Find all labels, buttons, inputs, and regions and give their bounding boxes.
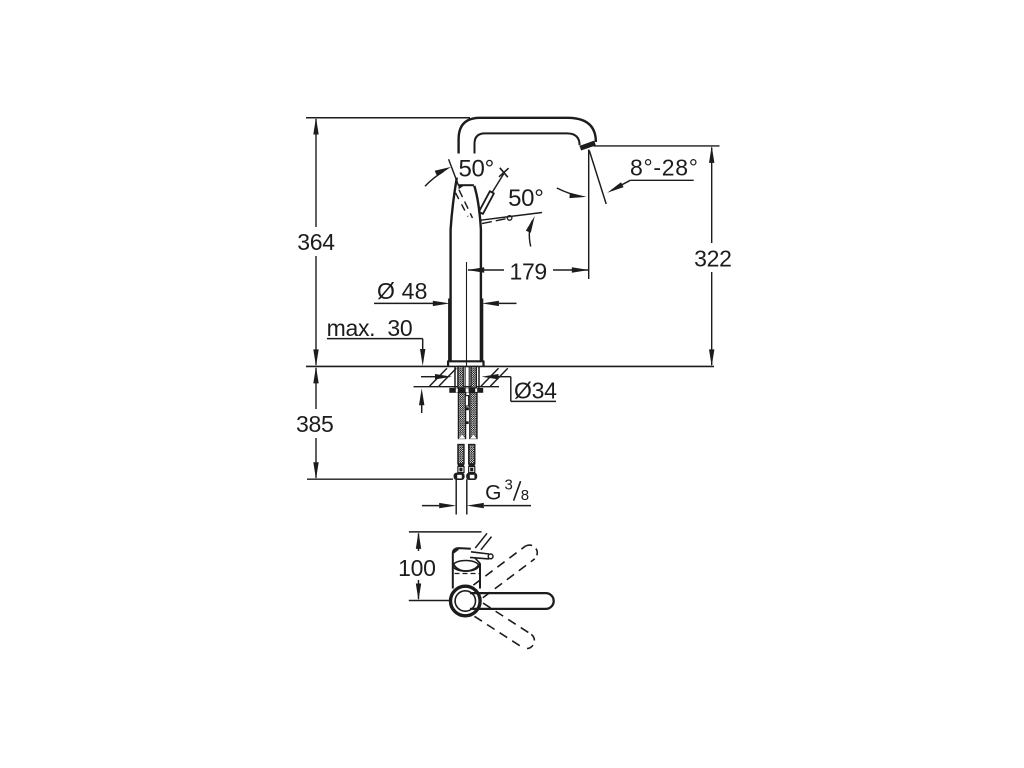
label G 3/8	[485, 477, 529, 505]
vertical line from spout outlet	[588, 150, 590, 280]
threaded stud right lower	[470, 393, 477, 439]
flexible hose left	[458, 445, 464, 465]
svg-text:322: 322	[694, 245, 731, 271]
handle collar line	[458, 184, 474, 186]
extension line top of faucet (364 upper bound)	[306, 117, 470, 119]
svg-text:364: 364	[297, 229, 335, 255]
hose end nut right	[466, 473, 477, 480]
spout outlet face (aerator)	[580, 143, 595, 148]
svg-text:Ø34: Ø34	[514, 377, 557, 403]
flexible hose right	[469, 445, 475, 465]
top-view lever raised diagonals	[475, 533, 491, 550]
label 385	[296, 411, 333, 437]
8-28 degree leader	[607, 180, 693, 192]
svg-text:385: 385	[296, 411, 333, 437]
threaded stud left lower	[458, 393, 465, 439]
handle collar black wedge	[459, 185, 466, 190]
label 50 deg lower	[508, 185, 543, 212]
label max 30	[327, 315, 413, 341]
dimension 179 line with arrows	[467, 267, 589, 272]
handle lever raised	[479, 174, 504, 214]
base sleeve right edge	[481, 299, 484, 362]
label 179	[509, 258, 546, 284]
lowered lever dashed outline	[482, 216, 512, 224]
threaded stud right upper	[471, 366, 477, 388]
label 100	[398, 555, 435, 581]
upper 50-degree arc arrow	[425, 167, 451, 186]
extension line hose end (385 lower bound)	[307, 478, 453, 480]
top-view cartridge outline	[453, 548, 480, 563]
countertop deck line	[306, 365, 714, 367]
label 364	[297, 229, 335, 255]
svg-text:100: 100	[398, 555, 435, 581]
top-view extension line upper (100)	[409, 531, 482, 533]
label 8-28 deg	[630, 155, 699, 181]
label 322	[694, 245, 731, 271]
svg-text:G: G	[485, 481, 501, 504]
lever end cross mark	[499, 168, 509, 177]
faucet spout inner contour	[475, 133, 580, 153]
diameter 34 leader and arrows	[421, 374, 556, 401]
svg-text:max. 30: max. 30	[327, 315, 413, 341]
top-view hidden dashed line	[455, 573, 480, 575]
body centerline	[466, 262, 468, 366]
svg-text:Ø 48: Ø 48	[377, 278, 428, 304]
top-view spout (solid position)	[470, 593, 554, 609]
threaded stud left upper	[458, 366, 464, 388]
base flange	[448, 361, 483, 366]
deck hatch left	[430, 368, 457, 386]
spout tilt diagonal line	[589, 151, 606, 205]
dimension 364 vertical line with arrows	[313, 118, 318, 367]
hose crimp sleeve right	[469, 464, 475, 473]
top-view body column	[453, 563, 480, 589]
faucet body left contour	[451, 178, 457, 362]
svg-text:50°: 50°	[508, 185, 543, 212]
dimension 322 vertical line with arrows	[709, 146, 714, 367]
label dia 34	[514, 377, 557, 403]
center supply pipe	[465, 366, 469, 424]
lower 50-degree arc arrow	[526, 216, 535, 247]
shank outer walls	[455, 366, 479, 388]
svg-text:3: 3	[505, 477, 513, 494]
label 50 deg upper	[458, 156, 493, 183]
top-view lever cylinder	[470, 552, 493, 559]
spout angle arc arrow	[557, 188, 587, 198]
dimension 100 vertical line with arrows	[416, 532, 421, 601]
top-view base ring outer	[451, 586, 481, 616]
max 30 leader and arrows	[327, 339, 426, 413]
upper 50-degree reference line	[449, 159, 459, 186]
faucet spout outer contour	[459, 118, 596, 154]
svg-text:50°: 50°	[458, 156, 493, 183]
top-view spout swivel position lower (dashed)	[474, 603, 534, 648]
svg-text:8: 8	[521, 487, 529, 504]
svg-text:8°-28°: 8°-28°	[630, 155, 699, 181]
hose crimp sleeve left	[458, 464, 464, 473]
base sleeve left edge	[448, 299, 451, 362]
faucet body right contour	[474, 186, 481, 362]
label dia 48	[377, 278, 428, 304]
top-view spout swivel position upper (dashed)	[473, 545, 537, 598]
hidden lever dashed lines	[456, 190, 473, 218]
deck hatch right	[481, 368, 508, 386]
extension line spout outlet (322 upper bound)	[594, 145, 720, 147]
supply pipe below	[456, 479, 467, 514]
G three-eighths arrows	[422, 503, 531, 508]
diameter 48 leader and arrows	[374, 301, 517, 306]
top-view extension line lower (100)	[409, 600, 455, 602]
lowered lever reference line	[481, 213, 542, 221]
dimension 385 vertical line with arrows	[313, 366, 318, 479]
mounting nut	[449, 388, 483, 393]
deck underside line	[414, 386, 500, 388]
hose end nut left	[454, 473, 465, 480]
top-view body waist ellipse	[453, 561, 480, 572]
svg-text:179: 179	[509, 258, 546, 284]
top-view base ring inner	[455, 591, 475, 611]
